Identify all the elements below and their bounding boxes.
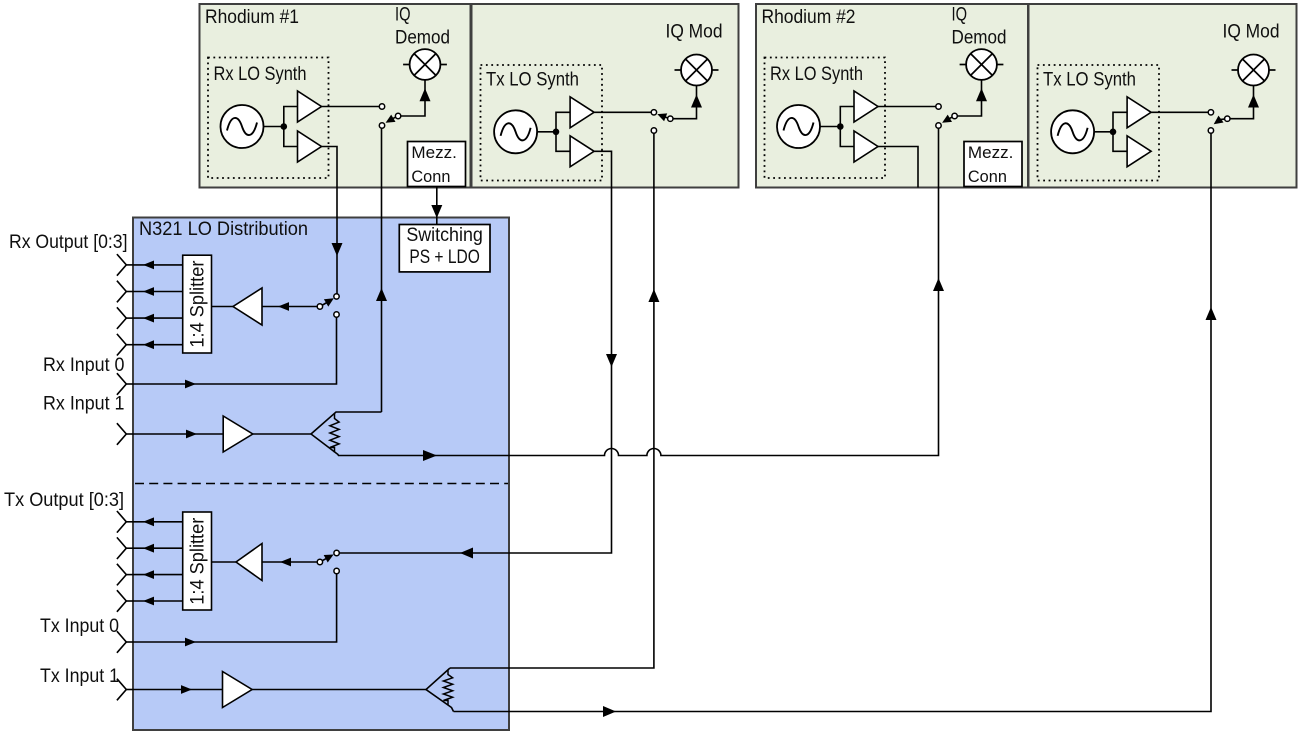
Tx module box #1 xyxy=(472,4,739,188)
wire Tx splitter to Tx LO2 switch (long) xyxy=(454,133,1212,711)
svg-text:Conn: Conn xyxy=(411,167,450,186)
amp (Rx distribution) xyxy=(233,288,262,325)
1:4 splitter (Rx) xyxy=(183,255,212,353)
svg-text:Tx LO Synth: Tx LO Synth xyxy=(486,70,579,91)
oscillator (Rx LO #2) xyxy=(777,105,820,148)
wire top amp to switch contact xyxy=(878,106,936,108)
svg-text:Tx LO Synth: Tx LO Synth xyxy=(1043,70,1136,91)
svg-text:IQ: IQ xyxy=(395,5,411,26)
wire Tx Input 1 to amp xyxy=(134,689,223,691)
svg-text:Tx Input 0: Tx Input 0 xyxy=(40,616,119,637)
Rx Output 2 connector xyxy=(117,307,126,329)
wire Rhodium2 bottom amp stub xyxy=(878,147,919,188)
Switching PS + LDO box xyxy=(399,225,490,272)
svg-text:Rhodium #1: Rhodium #1 xyxy=(205,7,299,28)
Rx source switch xyxy=(320,303,327,307)
wire Tx LO1 bottom amp to Tx switch (long) xyxy=(339,151,611,553)
junction dot xyxy=(1110,129,1117,136)
svg-text:Tx Output [0:3]: Tx Output [0:3] xyxy=(4,490,124,511)
junction dot xyxy=(281,123,288,130)
wire junction branch xyxy=(840,107,854,147)
wire Rx Input 1 to amp xyxy=(134,433,224,435)
buffer amp top (Tx LO #2) xyxy=(1127,97,1151,128)
wire Rhodium1 bottom amp to Rx switch xyxy=(322,147,338,294)
wire splitter to Tx Output 3 xyxy=(134,600,183,602)
svg-text:Rx Input 1: Rx Input 1 xyxy=(43,394,125,415)
Rx Output 1 connector xyxy=(117,281,126,303)
wire splitter to Tx Output 0 xyxy=(134,521,183,523)
wire switch to amp xyxy=(262,306,320,308)
dashed Rx/Tx divider xyxy=(135,483,508,485)
oscillator (Tx LO #1) xyxy=(494,110,537,153)
wire junction branch xyxy=(284,107,298,147)
Rhodium #1 module box xyxy=(200,4,471,188)
Rx Output 3 connector xyxy=(117,334,126,356)
wire splitter to Rx Output 2 xyxy=(134,317,183,319)
Tx Output 0 connector xyxy=(117,511,126,533)
svg-text:PS + LDO: PS + LDO xyxy=(409,247,480,268)
Mezz. Conn connector box xyxy=(964,142,1022,187)
wire Mezz Conn to Switching PS xyxy=(436,187,438,227)
svg-text:Rhodium #2: Rhodium #2 xyxy=(762,7,856,28)
svg-text:Conn: Conn xyxy=(968,167,1007,186)
wire junction branch xyxy=(556,112,570,151)
IQ demod mixer (U#2) xyxy=(966,49,997,80)
svg-text:Demod: Demod xyxy=(395,28,450,49)
Rx Output 0 connector xyxy=(117,254,126,276)
wire Tx splitter to Tx LO1 switch xyxy=(450,133,654,668)
wire switch pole to IQ mod mixer xyxy=(673,86,697,119)
Rhodium #2 module box xyxy=(756,4,1028,188)
Tx Input 1 connector xyxy=(117,679,126,701)
svg-text:1:4 Splitter: 1:4 Splitter xyxy=(188,260,209,348)
IQ mod mixer (U#1) xyxy=(681,55,712,86)
N321 LO Distribution box xyxy=(133,218,509,731)
svg-text:Rx LO Synth: Rx LO Synth xyxy=(770,64,863,85)
wire Rx splitter to Rhodium1 switch xyxy=(381,128,383,412)
wire switch to amp xyxy=(262,561,320,563)
wire osc to junction xyxy=(264,126,284,128)
wire splitter input xyxy=(212,306,234,308)
junction dot xyxy=(837,123,844,130)
Tx source switch xyxy=(320,558,327,562)
buffer amp top (Tx LO #1) xyxy=(570,97,594,128)
amp (Tx distribution) xyxy=(236,544,262,581)
wire osc to junction xyxy=(820,126,840,128)
Tx Output 1 connector xyxy=(117,537,126,559)
svg-text:Tx Input 1: Tx Input 1 xyxy=(40,666,119,687)
Rx LO Synth dotted box xyxy=(208,58,329,179)
buffer amp bottom (Tx LO #1) xyxy=(570,136,594,167)
Tx Output 3 connector xyxy=(117,590,126,612)
svg-text:Rx Input 0: Rx Input 0 xyxy=(43,355,125,376)
svg-text:Switching: Switching xyxy=(406,225,483,246)
wire Rx Input 0 to switch xyxy=(117,373,126,395)
wire Rx splitter to Rhodium2 switch (long) xyxy=(338,128,939,455)
wire osc to junction xyxy=(1094,131,1113,133)
oscillator (Rx LO #1) xyxy=(221,105,264,148)
svg-text:IQ Mod: IQ Mod xyxy=(1223,22,1280,43)
wire switch pole to IQ mod mixer xyxy=(1230,86,1254,119)
IQ mod mixer (U#2) xyxy=(1238,55,1269,86)
Tx module box #2 xyxy=(1029,4,1297,188)
wire switch pole to IQ demod mixer xyxy=(957,76,981,116)
buffer amp top (Rx LO #1) xyxy=(298,91,322,122)
svg-text:Mezz.: Mezz. xyxy=(968,143,1014,162)
Mezz. Conn connector box xyxy=(408,142,466,187)
oscillator (Tx LO #2) xyxy=(1051,110,1094,153)
LO select switch (Rx #2) xyxy=(949,116,955,119)
Rx Input 1 connector xyxy=(117,423,126,445)
svg-text:N321 LO Distribution: N321 LO Distribution xyxy=(139,219,308,240)
LO select switch (Tx #1) xyxy=(665,117,671,119)
buffer amp bottom (Rx LO #1) xyxy=(298,131,322,162)
1:4 splitter (Tx) xyxy=(183,512,212,610)
IQ demod mixer (U#1) xyxy=(410,49,441,80)
LO select switch (Rx #1) xyxy=(393,116,399,119)
LO select switch (Tx #2) xyxy=(1220,118,1227,121)
amp (Rx Input 1) xyxy=(223,416,253,452)
wire splitter to Rx Output 0 xyxy=(134,264,183,266)
wire top amp to switch contact xyxy=(322,106,380,108)
wire top amp to switch contact xyxy=(594,111,651,113)
wire top amp to switch contact xyxy=(1151,111,1208,113)
wire splitter to Rx Output 3 xyxy=(134,344,183,346)
wire switch pole to IQ demod mixer xyxy=(401,76,425,116)
Rx LO Synth dotted box xyxy=(765,58,886,179)
svg-text:1:4 Splitter: 1:4 Splitter xyxy=(188,517,209,605)
svg-text:IQ: IQ xyxy=(952,5,968,26)
wire amp to Tx splitter xyxy=(252,689,426,691)
wire splitter input xyxy=(212,561,237,563)
Tx Output 2 connector xyxy=(117,564,126,586)
svg-text:Mezz.: Mezz. xyxy=(411,143,457,162)
junction dot xyxy=(553,129,560,136)
resistive splitter (Tx) xyxy=(426,668,454,712)
wire osc to junction xyxy=(537,131,556,133)
svg-text:Rx Output [0:3]: Rx Output [0:3] xyxy=(9,232,128,253)
svg-text:IQ Mod: IQ Mod xyxy=(666,22,723,43)
Tx LO Synth dotted box xyxy=(1038,65,1160,181)
buffer amp top (Rx LO #2) xyxy=(854,91,878,122)
buffer amp bottom (Rx LO #2) xyxy=(854,131,878,162)
wire amp to Rx splitter xyxy=(253,433,311,435)
Tx LO Synth dotted box xyxy=(481,65,603,181)
wire splitter to Tx Output 1 xyxy=(134,547,183,549)
buffer amp bottom (Tx LO #2) xyxy=(1127,136,1151,167)
wire splitter to Tx Output 2 xyxy=(134,574,183,576)
svg-text:Rx LO Synth: Rx LO Synth xyxy=(214,64,307,85)
svg-text:Demod: Demod xyxy=(952,28,1007,49)
wire junction branch xyxy=(1113,112,1127,151)
resistive splitter (Rx) xyxy=(311,412,382,456)
amp (Tx Input 1) xyxy=(223,672,253,708)
wire splitter to Rx Output 1 xyxy=(134,291,183,293)
wire Tx Input 0 to switch xyxy=(117,631,126,653)
